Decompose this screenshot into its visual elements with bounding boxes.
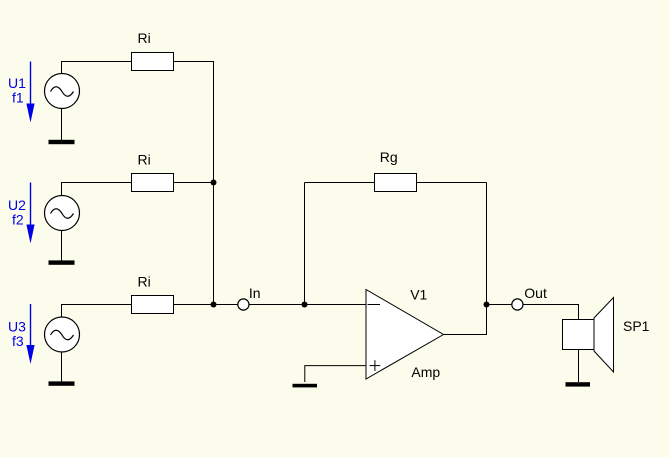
wire op-amp noninverting input	[305, 366, 366, 382]
arrow U2	[26, 183, 34, 244]
ground G2	[49, 260, 75, 264]
node Out (open terminal)	[512, 299, 523, 310]
resistor Rg	[375, 174, 417, 192]
wire U2 ground lead	[61, 231, 63, 262]
wire U3 top lead	[62, 305, 132, 318]
junction summing node	[302, 302, 308, 308]
wire U2 top lead	[62, 183, 132, 196]
wire feedback left vertical	[304, 183, 306, 305]
svg-text:Amp: Amp	[411, 364, 440, 380]
junction output node	[484, 302, 490, 308]
wire bus row2 to row3	[213, 183, 215, 305]
wire node In to summing junction	[249, 304, 304, 306]
node In (open terminal)	[238, 299, 249, 310]
junction bus row3	[211, 302, 217, 308]
wire summing node to op-amp inverting input	[305, 304, 367, 306]
arrow U1	[26, 62, 34, 123]
svg-text:SP1: SP1	[623, 318, 650, 334]
wire feedback right vertical	[486, 183, 488, 305]
wire Out to speaker	[523, 305, 578, 320]
wire U1 top lead	[62, 62, 132, 74]
wire output node to Out terminal	[487, 304, 512, 306]
ground G1	[49, 140, 75, 144]
AC source U1	[45, 74, 80, 109]
arrow U3	[26, 304, 34, 364]
wire Ri row3 to bus	[174, 304, 214, 306]
wire speaker ground lead	[578, 350, 580, 383]
wire bus to node In	[214, 304, 238, 306]
wire Ri row2 to bus	[174, 182, 214, 184]
svg-text:Ri: Ri	[138, 152, 151, 168]
resistor Ri (row 3)	[132, 296, 174, 314]
wire feedback top right	[417, 182, 487, 184]
speaker SP1	[563, 298, 614, 373]
wire Ri row1 to bus	[174, 62, 214, 183]
wire U3 ground lead	[61, 352, 63, 382]
wire feedback top left	[305, 182, 375, 184]
svg-text:f2: f2	[12, 212, 24, 228]
svg-text:Ri: Ri	[138, 274, 151, 290]
wire U1 ground lead	[61, 109, 63, 141]
resistor Ri (row 1)	[132, 53, 174, 71]
ground G4 (op-amp + input)	[293, 384, 318, 388]
junction bus row2	[211, 180, 217, 186]
svg-text:Out: Out	[524, 285, 547, 301]
resistor Ri (row 2)	[132, 174, 174, 192]
wire op-amp output	[444, 305, 487, 335]
ground G5 (speaker)	[566, 382, 591, 386]
op-amp V1	[366, 290, 444, 380]
ground G3	[49, 381, 75, 385]
AC source U3	[45, 317, 80, 352]
svg-text:f1: f1	[12, 90, 24, 106]
svg-text:f3: f3	[12, 333, 24, 349]
svg-text:In: In	[249, 285, 261, 301]
AC source U2	[45, 196, 80, 231]
svg-text:V1: V1	[410, 286, 427, 302]
svg-text:Ri: Ri	[138, 30, 151, 46]
svg-text:Rg: Rg	[380, 149, 398, 165]
